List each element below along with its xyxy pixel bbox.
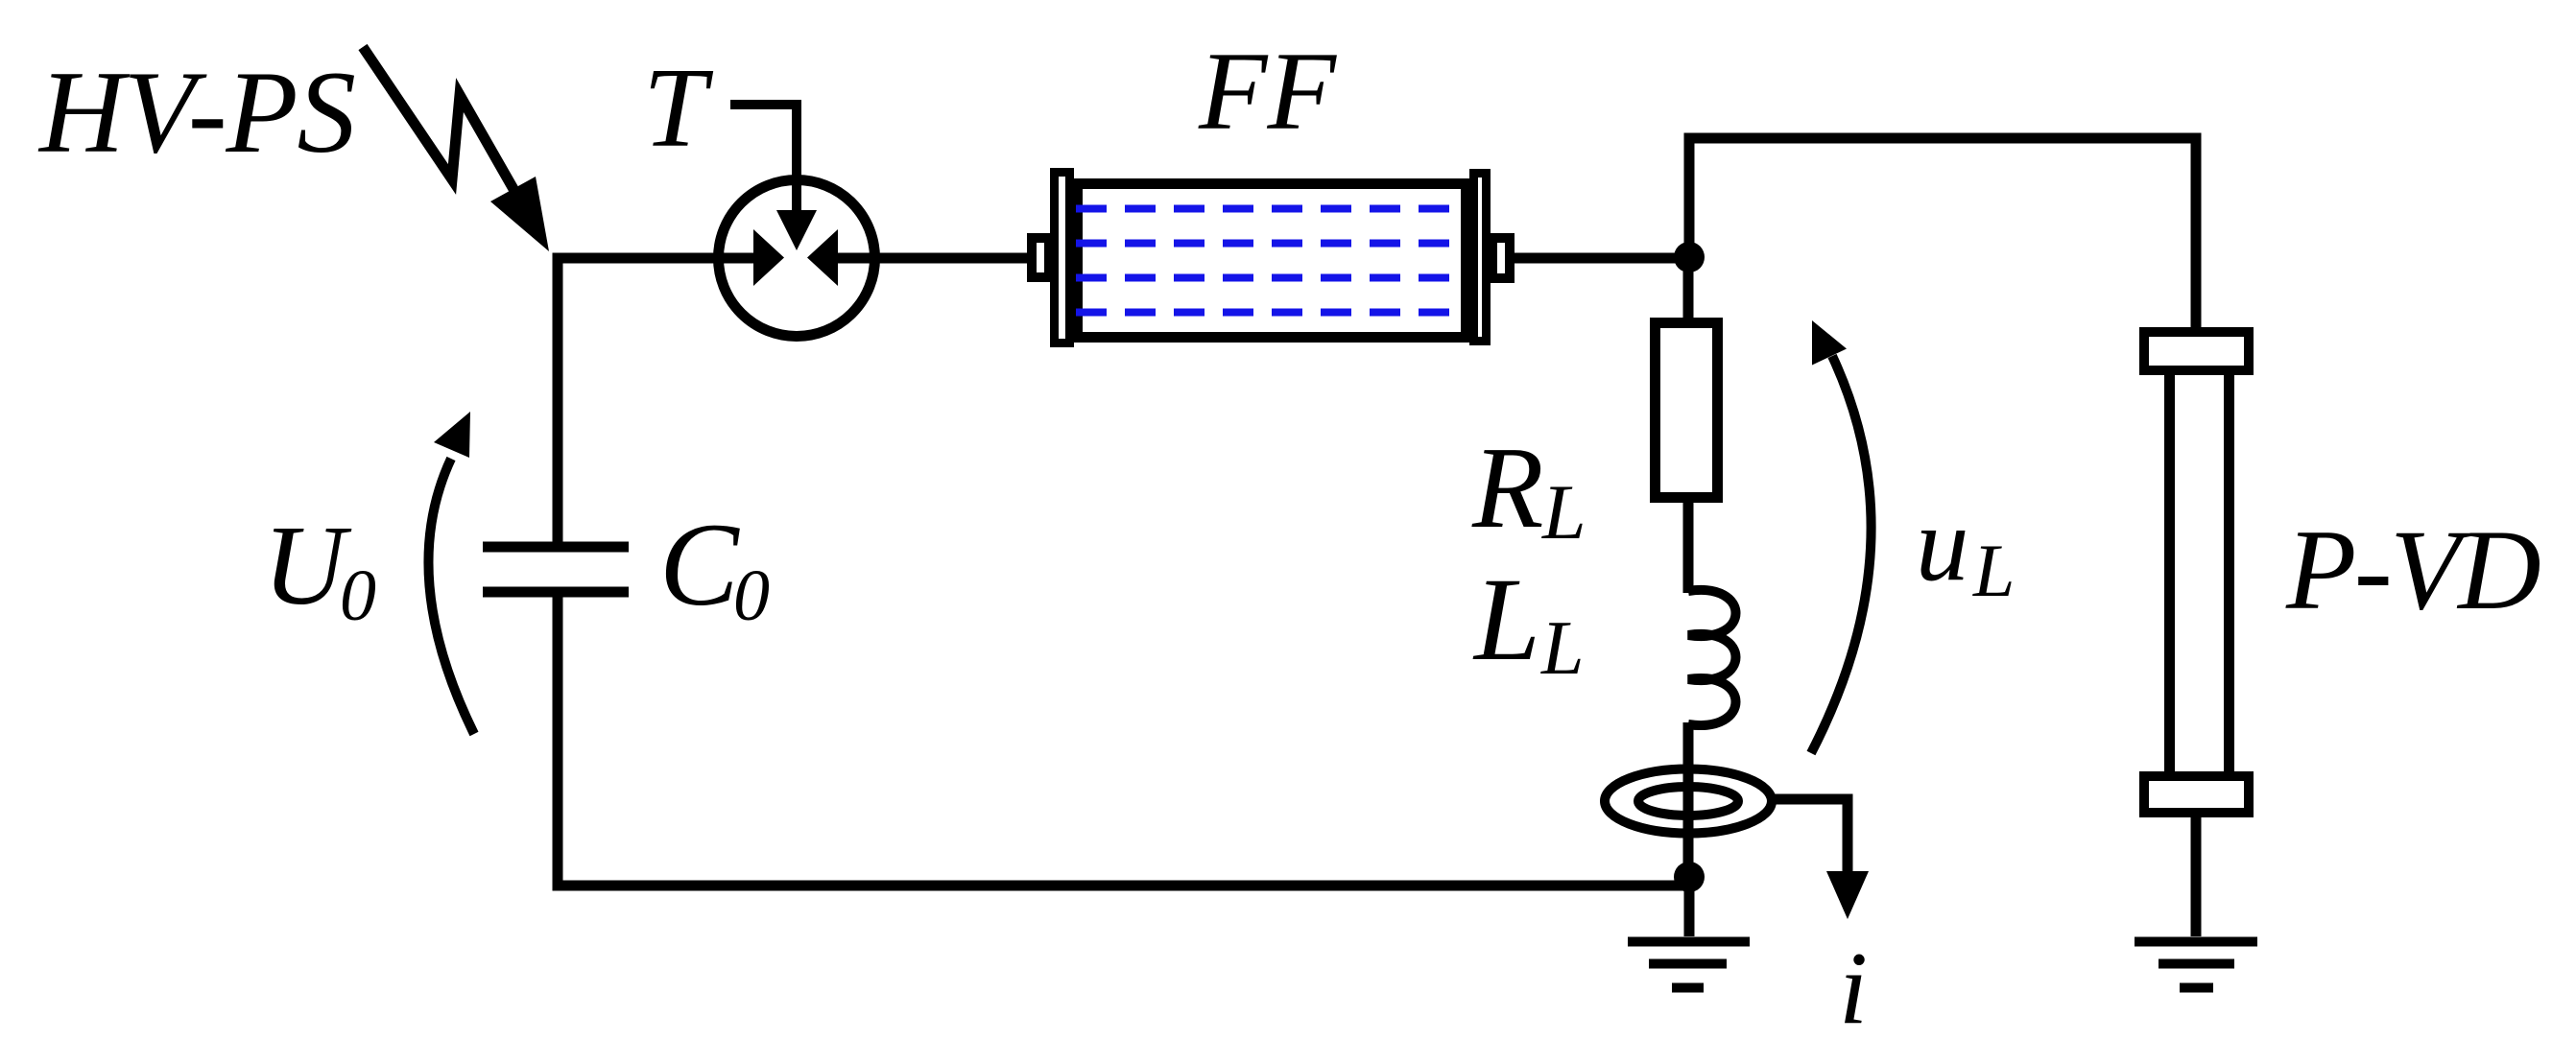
spark gap left arrow [753,229,784,286]
node B junction dot [1674,862,1705,892]
P-VD tube [2170,372,2230,774]
u_L voltage arc arrow [1811,356,1872,753]
flashlamp FF right end cap [1474,174,1487,342]
trigger wire from T into spark gap [730,105,797,216]
U0 voltage arc arrow [428,459,474,734]
svg-text:T: T [643,44,714,171]
CT tap wire to current arrow [1775,799,1848,873]
wire: node B to ground [1684,884,1695,936]
svg-text:0: 0 [733,556,770,636]
svg-text:P-VD: P-VD [2285,506,2540,633]
P-VD top cap [2144,332,2249,370]
svg-text:i: i [1839,932,1868,1046]
HV-PS arrowhead [490,177,549,251]
svg-text:L: L [1540,606,1585,691]
wire: left branch below capacitor + bottom wire [558,596,1691,886]
HV-PS zigzag arrow [363,47,521,202]
svg-text:R: R [1471,423,1544,553]
flashlamp FF body [1078,184,1467,338]
trigger arrowhead [776,210,817,250]
flashlamp FF blue dashed lines [1076,209,1467,313]
wire: resistor to inductor [1683,497,1694,593]
flashlamp FF left end cap [1055,173,1070,343]
u_L arc arrowhead [1812,320,1847,366]
node A junction dot [1674,242,1705,272]
current transformer inner ellipse [1638,787,1738,816]
svg-text:L: L [1972,529,2015,612]
ground (right) [2135,942,2257,988]
flashlamp FF right stub [1492,238,1510,278]
flashlamp FF left stub [1032,238,1049,277]
capacitor C0 plates [483,547,629,592]
svg-text:0: 0 [340,556,376,636]
current arrowhead [1826,871,1869,919]
wire: P-VD to ground [2191,817,2202,936]
inductor LL coil [1688,590,1736,725]
wire: node A down to resistor [1683,257,1694,319]
wire: spark gap to FF [836,253,1029,264]
current transformer outer ellipse [1605,769,1772,834]
ground (left) [1628,942,1750,988]
svg-text:FF: FF [1198,30,1337,154]
P-VD bottom cap [2144,776,2249,813]
svg-text:C: C [659,499,740,630]
spark gap right arrow [807,229,838,286]
spark gap T circle [719,180,875,337]
resistor RL [1656,323,1718,498]
wire: top-left corner (left branch top + wire to spark gap) [558,258,756,543]
svg-text:L: L [1541,468,1586,556]
wire: FF to node A [1513,253,1689,264]
svg-text:L: L [1472,554,1540,685]
wire: node A up and across to P-VD [1689,138,2196,331]
svg-text:u: u [1916,485,1969,603]
wire: inductor through CT to node B [1683,722,1694,884]
svg-text:HV-PS: HV-PS [37,46,355,177]
U0 arc arrowhead [434,412,470,458]
